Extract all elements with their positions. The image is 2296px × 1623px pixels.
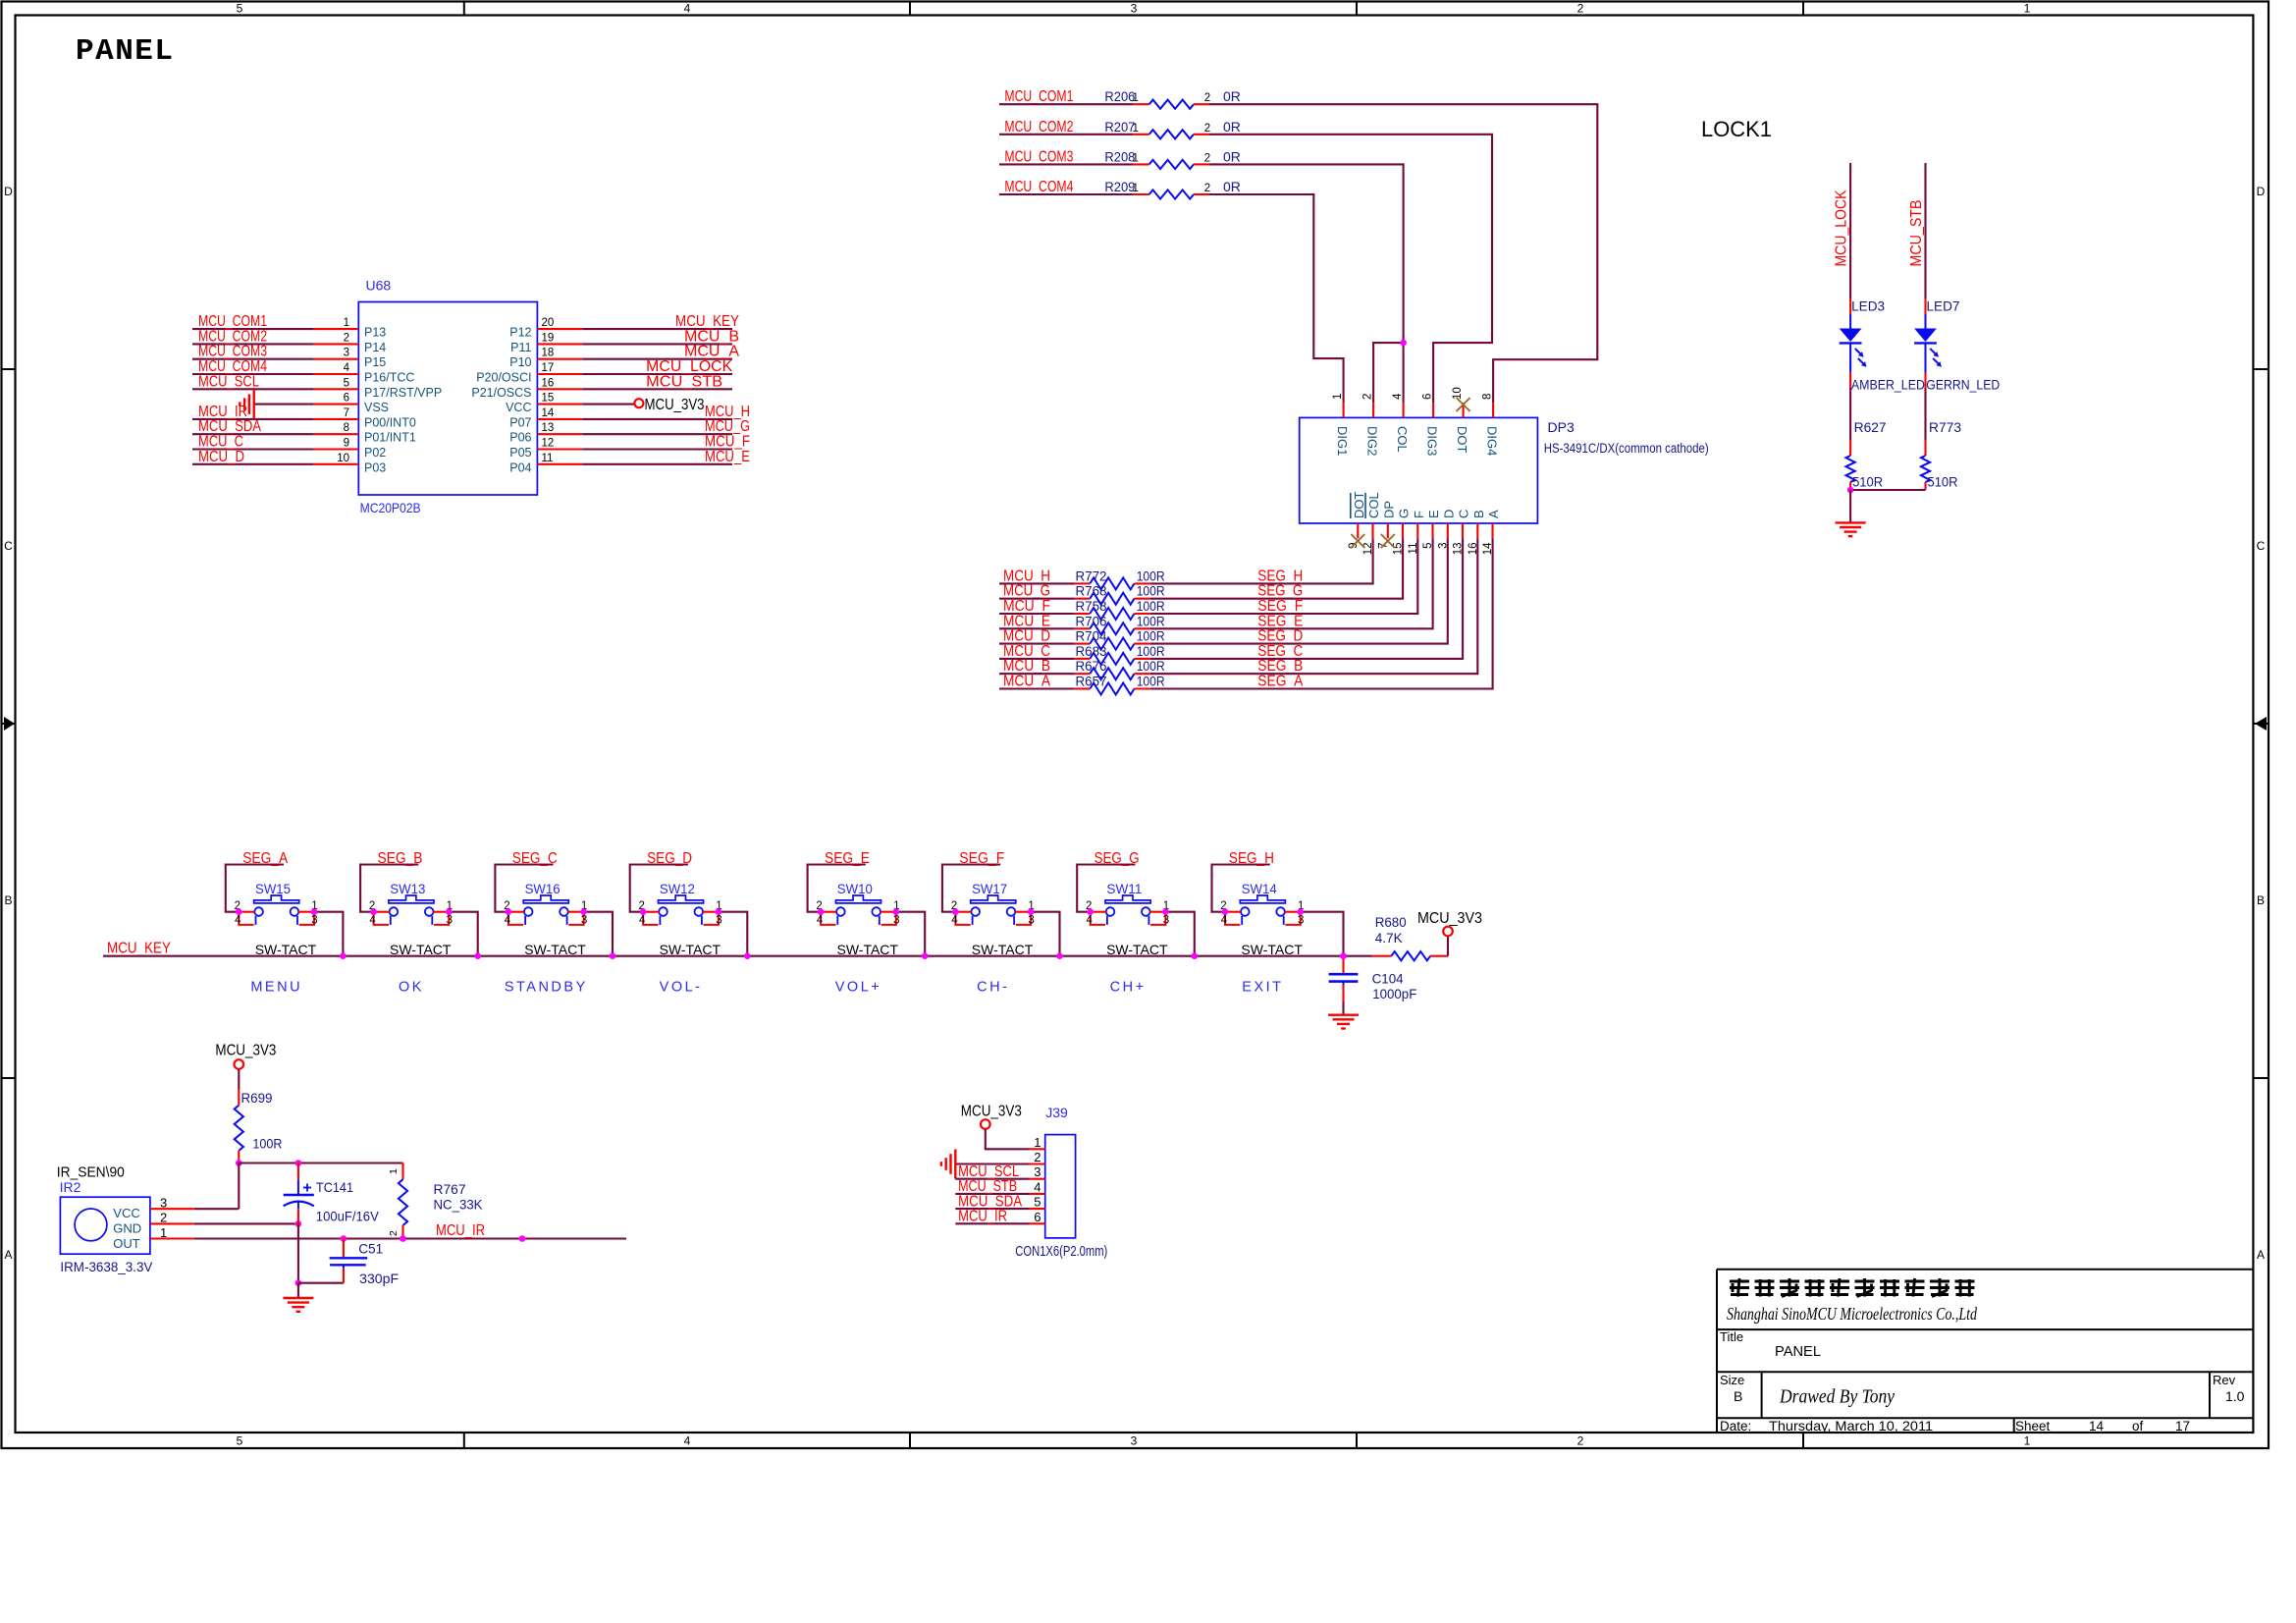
svg-text:SEG_B: SEG_B (378, 850, 423, 867)
svg-text:2: 2 (344, 332, 349, 344)
no-connect X on DP3 pin 10 (1457, 398, 1470, 411)
svg-text:B: B (2257, 893, 2265, 907)
resistor R706 pin2 stub (1135, 627, 1150, 629)
svg-text:2: 2 (1362, 394, 1374, 400)
wire SEG_G to DP3 pin (1150, 538, 1403, 598)
svg-text:EXIT: EXIT (1242, 980, 1283, 996)
svg-text:0R: 0R (1223, 179, 1241, 194)
resistor R683 pin2 stub (1135, 658, 1150, 660)
U68 pin 16 (P21/OSCS) stub (537, 388, 582, 390)
svg-text:SW-TACT: SW-TACT (390, 942, 452, 957)
junction SW10 pin2 (818, 908, 825, 915)
switch SW13 pin3 loop (434, 912, 449, 925)
svg-text:SW16: SW16 (525, 881, 561, 896)
svg-text:VCC: VCC (506, 401, 531, 414)
wire net MCU_LOCK at U68 right (582, 373, 732, 375)
title block frame (1717, 1269, 2253, 1271)
svg-text:MCU_IR: MCU_IR (436, 1222, 485, 1239)
LED LED7 emission arrows (1930, 349, 1938, 356)
svg-text:5: 5 (237, 1434, 243, 1448)
resistor R767 pin2 stub (401, 1225, 403, 1239)
wire bus to R680 (1344, 955, 1373, 957)
svg-text:SEG_E: SEG_E (825, 850, 870, 867)
wire C51 bottom to ground node (298, 1282, 344, 1284)
svg-text:1.0: 1.0 (2225, 1388, 2245, 1404)
svg-text:E: E (1426, 510, 1441, 518)
svg-text:MC20P02B: MC20P02B (360, 500, 421, 515)
svg-text:R699: R699 (241, 1090, 273, 1106)
resistor R683 pin1 stub (1075, 658, 1091, 660)
svg-text:4: 4 (639, 915, 646, 927)
svg-text:1: 1 (1133, 152, 1139, 164)
svg-text:R676: R676 (1076, 658, 1107, 674)
DP3 top pin 1 stub (1343, 403, 1345, 417)
wire net SEG_G stub at SW11 (1077, 865, 1135, 912)
wire SEG_C to DP3 pin (1150, 538, 1463, 659)
junction on bus below SW13 (474, 952, 481, 959)
svg-text:3: 3 (581, 915, 587, 927)
wire MCU_E to R706 (999, 627, 1075, 629)
junction on bus below SW10 (922, 952, 929, 959)
resistor R208 body (1149, 160, 1194, 169)
wire net MCU_COM4 at U68 left (192, 373, 313, 375)
power port MCU_3V3 at R699 (235, 1059, 244, 1069)
svg-text:P10: P10 (509, 355, 531, 369)
wire net MCU_IR at J39 (955, 1222, 1030, 1224)
junction SW11 pin2 (1087, 908, 1094, 915)
svg-text:14: 14 (542, 407, 555, 419)
switch SW15 pin3 loop (299, 912, 314, 925)
capacitor TC141 top stub (297, 1163, 299, 1180)
svg-text:P05: P05 (509, 446, 531, 460)
wire MCU_D to R704 (999, 643, 1075, 645)
svg-text:8: 8 (344, 422, 349, 434)
svg-text:1: 1 (2024, 1434, 2031, 1448)
wire MCU_COM4 to R209 (999, 193, 1134, 195)
svg-text:Thursday, March 10, 2011: Thursday, March 10, 2011 (1769, 1418, 1933, 1434)
wire TC141 bottom to ground node (297, 1223, 299, 1282)
svg-text:P02: P02 (364, 446, 386, 460)
junction SW16 pin1 (580, 908, 587, 915)
svg-text:1: 1 (1133, 92, 1139, 104)
svg-text:B: B (1471, 510, 1486, 518)
resistor R680 pin2 stub (1430, 955, 1448, 957)
svg-text:2: 2 (1577, 1434, 1584, 1448)
svg-text:DIG3: DIG3 (1425, 426, 1440, 456)
svg-text:SEG_A: SEG_A (1257, 674, 1304, 690)
resistor R704 pin2 stub (1135, 643, 1150, 645)
wire net MCU_B at U68 right (582, 343, 732, 345)
switch SW10 pin2 stub (824, 911, 836, 913)
svg-text:7: 7 (344, 407, 349, 419)
svg-text:P13: P13 (364, 326, 386, 340)
U68 pin 12 (P05) stub (537, 448, 582, 450)
switch SW17 body (971, 895, 1016, 903)
svg-text:SW-TACT: SW-TACT (1106, 942, 1168, 957)
capacitor C104 top stub (1342, 956, 1344, 973)
wire MCU_H to R772 (999, 582, 1075, 584)
svg-text:15: 15 (542, 393, 555, 405)
svg-text:10: 10 (337, 453, 349, 464)
svg-text:100R: 100R (1137, 628, 1165, 644)
wire net MCU_STB at U68 right (582, 388, 732, 390)
junction SW11 pin1 (1162, 908, 1169, 915)
switch SW12 pin2 stub (646, 911, 659, 913)
wire net MCU_COM1 at U68 left (192, 328, 313, 330)
junction SW12 pin1 (716, 908, 722, 915)
no-connect X on DP3 pin 9 (1351, 534, 1364, 548)
IR2 pin 2 stub (150, 1222, 194, 1224)
resistor R773 body (1921, 456, 1930, 482)
wire SEG_H to DP3 pin (1150, 538, 1373, 583)
junction R767 bottom (400, 1235, 406, 1242)
LED LED3 emission arrows (1855, 349, 1863, 356)
DP3 bottom pin 9 stub (1357, 523, 1359, 538)
svg-text:OUT: OUT (113, 1236, 140, 1251)
wire SW15 pin1 to MCU_KEY bus (314, 912, 343, 956)
svg-text:SEG_C: SEG_C (512, 850, 558, 867)
svg-text:11: 11 (542, 453, 554, 464)
svg-text:17: 17 (542, 362, 555, 374)
resistor R772 pin2 stub (1135, 582, 1150, 584)
switch SW14 pin3 loop (1285, 912, 1300, 925)
svg-text:C104: C104 (1372, 971, 1404, 987)
wire SEG_B to DP3 pin (1150, 538, 1478, 674)
wire MCU_COM4 to DP3 DIG1 pin 1 (1208, 194, 1343, 403)
svg-text:P11: P11 (510, 341, 531, 354)
svg-text:1: 1 (1133, 183, 1139, 194)
switch SW13 body (389, 895, 434, 903)
switch SW15 pin2 stub (241, 911, 254, 913)
resistor R773 pin2 stub (1924, 482, 1926, 490)
resistor R699 pin1 stub (238, 1089, 240, 1106)
svg-text:LED7: LED7 (1927, 298, 1960, 314)
svg-text:MCU_3V3: MCU_3V3 (961, 1104, 1022, 1120)
ground symbol (rotated) at U68 VSS (253, 390, 255, 419)
wire R680 to MCU_3V3 (1447, 936, 1449, 955)
capacitor TC141 plus sign (303, 1187, 311, 1189)
svg-text:Shanghai SinoMCU Microelectron: Shanghai SinoMCU Microelectronics Co.,Lt… (1727, 1304, 1977, 1324)
svg-text:SW11: SW11 (1106, 881, 1142, 896)
svg-text:VCC: VCC (113, 1206, 139, 1220)
resistor R767 pin1 stub (401, 1163, 403, 1180)
wire MCU_COM2 to DP3 DIG3 pin 6 (1208, 135, 1492, 403)
U68 pin 18 (P10) stub (537, 358, 582, 360)
U68 pin 13 (P06) stub (537, 433, 582, 435)
svg-text:1: 1 (1133, 123, 1139, 135)
capacitor C51 top stub (343, 1239, 345, 1258)
resistor R772 pin1 stub (1075, 582, 1091, 584)
svg-text:14: 14 (2089, 1419, 2105, 1434)
svg-text:SW-TACT: SW-TACT (837, 942, 899, 957)
svg-text:2: 2 (1577, 2, 1584, 16)
svg-text:6: 6 (1422, 394, 1434, 400)
ground symbol at IR section (283, 1297, 313, 1299)
switch SW14 pin4 loop (1225, 912, 1240, 925)
svg-text:CH-: CH- (977, 980, 1009, 996)
wire SEG_A to DP3 pin (1150, 538, 1493, 688)
U68 pin 15 (VCC) stub (537, 404, 582, 406)
svg-text:P21/OSCS: P21/OSCS (471, 386, 531, 400)
wire net MCU_SDA at U68 left (192, 433, 313, 435)
svg-text:SEG_F: SEG_F (959, 850, 1004, 867)
svg-text:A: A (4, 1248, 12, 1262)
svg-text:2: 2 (1204, 183, 1210, 194)
resistor R657 pin2 stub (1135, 687, 1150, 689)
svg-text:Drawed By Tony: Drawed By Tony (1779, 1386, 1895, 1408)
wire SEG_E to DP3 pin (1150, 538, 1433, 628)
wire net MCU_COM2 at U68 left (192, 343, 313, 345)
svg-text:3: 3 (344, 348, 349, 359)
switch SW12 body (659, 895, 704, 903)
svg-text:of: of (2132, 1419, 2144, 1434)
svg-text:1: 1 (2024, 2, 2031, 16)
wire MCU_COM3 to R208 (999, 163, 1134, 165)
resistor R657 pin1 stub (1075, 687, 1091, 689)
overline on DP3 pin name COL (1364, 493, 1366, 518)
svg-text:2: 2 (1204, 123, 1210, 135)
svg-text:510R: 510R (1928, 474, 1958, 490)
svg-text:Size: Size (1720, 1373, 1744, 1387)
svg-text:P15: P15 (364, 355, 386, 369)
switch SW16 pin3 loop (568, 912, 583, 925)
U68 pin 9 (P02) stub (313, 448, 358, 450)
svg-text:19: 19 (542, 332, 555, 344)
svg-text:1: 1 (160, 1225, 167, 1240)
svg-text:4: 4 (369, 915, 376, 927)
junction bus/R680/C104 (1340, 952, 1347, 959)
svg-text:SEG_G: SEG_G (1095, 850, 1140, 867)
svg-text:MCU_3V3: MCU_3V3 (1417, 910, 1482, 927)
svg-text:DIG4: DIG4 (1485, 426, 1500, 456)
svg-text:17: 17 (2175, 1419, 2190, 1434)
wire SW10 pin1 to MCU_KEY bus (896, 912, 925, 956)
svg-text:C: C (4, 539, 13, 553)
svg-text:B: B (1734, 1388, 1742, 1404)
junction ground node (295, 1279, 302, 1286)
DP3 bottom pin 14 stub (1491, 523, 1493, 538)
junction on bus below SW12 (744, 952, 751, 959)
resistor R208 pin2 stub (1194, 163, 1208, 165)
svg-text:D: D (4, 185, 13, 198)
svg-text:SW-TACT: SW-TACT (660, 942, 721, 957)
svg-text:2: 2 (1204, 92, 1210, 104)
wire SW11 pin1 to MCU_KEY bus (1165, 912, 1194, 956)
svg-text:SW-TACT: SW-TACT (255, 942, 317, 957)
junction on bus below SW15 (340, 952, 347, 959)
wire branch COL junction to DIG2 pin 2 (1373, 343, 1404, 403)
U68 pin 4 (P16/TCC) stub (313, 373, 358, 375)
LED LED7 body (1925, 314, 1927, 329)
svg-text:6: 6 (1034, 1210, 1041, 1224)
svg-text:3: 3 (1163, 915, 1169, 927)
svg-text:510R: 510R (1852, 474, 1883, 490)
switch SW12 pin1 stub (703, 911, 716, 913)
svg-text:0R: 0R (1223, 119, 1241, 135)
U68 pin 7 (P00/INT0) stub (313, 418, 358, 420)
wire net MCU_SCL at U68 left (192, 388, 313, 390)
J39 pin 3 stub (1030, 1178, 1045, 1180)
switch SW15 body (254, 895, 299, 903)
wire IR2 OUT / MCU_IR (194, 1237, 626, 1239)
svg-text:IRM-3638_3.3V: IRM-3638_3.3V (60, 1259, 153, 1274)
DP3 top pin 2 stub (1372, 403, 1374, 417)
svg-text:SW17: SW17 (972, 881, 1007, 896)
svg-text:4: 4 (684, 2, 691, 16)
U68 pin 14 (P07) stub (537, 418, 582, 420)
junction at COL net (1400, 340, 1407, 347)
svg-text:J39: J39 (1045, 1105, 1068, 1120)
wire net MCU_IR at U68 left (192, 418, 313, 420)
resistor R208 pin1 stub (1134, 163, 1149, 165)
svg-text:DP3: DP3 (1548, 419, 1575, 435)
resistor R768 pin1 stub (1075, 598, 1091, 600)
wire SW17 pin1 to MCU_KEY bus (1031, 912, 1059, 956)
LED LED3 body (1849, 314, 1851, 329)
svg-text:5: 5 (344, 377, 349, 389)
svg-text:R706: R706 (1076, 613, 1107, 628)
svg-text:1: 1 (344, 317, 349, 329)
overline on DP3 pin name DOT (1350, 493, 1352, 518)
svg-text:R657: R657 (1076, 674, 1107, 689)
svg-text:4: 4 (1086, 915, 1093, 927)
svg-text:P16/TCC: P16/TCC (364, 371, 414, 385)
DP3 bottom pin 3 stub (1447, 523, 1449, 538)
resistor R206 body (1149, 100, 1194, 109)
svg-text:IR_SEN\90: IR_SEN\90 (57, 1164, 125, 1181)
svg-text:100R: 100R (1137, 598, 1165, 614)
svg-text:COL: COL (1395, 426, 1410, 453)
svg-text:VOL+: VOL+ (835, 980, 881, 996)
junction TC141 bottom / GND (295, 1220, 302, 1227)
wire SEG_F to DP3 pin (1150, 538, 1418, 614)
centerline arrow right border (2255, 717, 2267, 730)
svg-text:MCU_SCL: MCU_SCL (198, 373, 259, 390)
svg-text:R627: R627 (1854, 419, 1887, 435)
svg-text:P20/OSCI: P20/OSCI (476, 371, 531, 385)
wire MCU_B to R676 (999, 673, 1075, 675)
svg-text:3: 3 (1298, 915, 1304, 927)
svg-text:DP: DP (1381, 501, 1396, 518)
U68 pin 10 (P03) stub (313, 463, 358, 465)
svg-text:MCU_3V3: MCU_3V3 (645, 397, 705, 413)
svg-text:16: 16 (542, 377, 555, 389)
switch SW15 pin4 loop (239, 912, 253, 925)
switch SW13 pin1 stub (433, 911, 446, 913)
svg-text:4: 4 (505, 915, 511, 927)
power port MCU_3V3 at R680 (1443, 927, 1453, 937)
switch SW12 pin4 loop (643, 912, 658, 925)
switch SW10 pin4 loop (821, 912, 835, 925)
junction SW17 pin2 (952, 908, 959, 915)
resistor R768 body (1090, 593, 1134, 605)
wire ground node down (297, 1283, 299, 1298)
junction on bus below SW17 (1056, 952, 1063, 959)
svg-text:3: 3 (447, 915, 453, 927)
switch SW10 pin3 loop (881, 912, 896, 925)
switch SW11 body (1105, 895, 1150, 903)
switch SW12 pin3 loop (704, 912, 719, 925)
svg-text:R704: R704 (1076, 628, 1107, 644)
svg-text:330pF: 330pF (359, 1271, 399, 1286)
power port MCU_3V3 at U68 VCC (634, 399, 643, 407)
svg-text:MCU_A: MCU_A (1003, 674, 1051, 690)
svg-text:AMBER_LED: AMBER_LED (1851, 376, 1925, 392)
DP3 bottom pin 13 stub (1462, 523, 1464, 538)
wire LED3 to R627 (1849, 388, 1851, 441)
svg-text:MCU_IR: MCU_IR (958, 1209, 1007, 1225)
J39 pin 4 stub (1030, 1193, 1045, 1195)
wire SEG_D to DP3 pin (1150, 538, 1448, 643)
wire net MCU_A at U68 right (582, 358, 732, 360)
junction SW16 pin2 (506, 908, 512, 915)
junction R699/VCC (236, 1160, 242, 1166)
svg-text:MCU_COM2: MCU_COM2 (1004, 119, 1073, 135)
svg-text:R772: R772 (1076, 568, 1107, 583)
svg-text:R773: R773 (1929, 419, 1961, 435)
resistor R207 body (1149, 130, 1194, 138)
svg-text:VOL-: VOL- (660, 980, 703, 996)
junction SW13 pin1 (446, 908, 453, 915)
svg-text:MCU_3V3: MCU_3V3 (215, 1042, 276, 1058)
wire net SEG_E stub at SW10 (808, 865, 866, 912)
resistor R657 body (1090, 683, 1134, 695)
zone row ticks left/right (2, 368, 16, 370)
svg-text:C51: C51 (358, 1241, 383, 1257)
svg-text:R207: R207 (1104, 119, 1135, 135)
svg-text:4: 4 (817, 915, 824, 927)
svg-text:Title: Title (1720, 1329, 1743, 1344)
wire MCU_A to R657 (999, 687, 1075, 689)
wire net SEG_H stub at SW14 (1212, 865, 1270, 912)
svg-text:MCU_COM3: MCU_COM3 (1004, 148, 1073, 165)
wire MCU_COM1 to DP3 DIG4 pin 8 (1208, 104, 1597, 403)
svg-text:1: 1 (1332, 394, 1344, 400)
capacitor TC141 body (284, 1194, 314, 1196)
resistor R706 body (1090, 622, 1134, 634)
resistor R627 pin1 stub (1849, 441, 1851, 456)
resistor R758 pin1 stub (1075, 613, 1091, 615)
svg-text:2: 2 (1204, 152, 1210, 164)
svg-text:0R: 0R (1223, 88, 1241, 104)
svg-text:CON1X6(P2.0mm): CON1X6(P2.0mm) (1015, 1244, 1107, 1260)
U68 pin 8 (P01/INT1) stub (313, 433, 358, 435)
svg-text:3: 3 (1131, 2, 1138, 16)
svg-text:10: 10 (1452, 387, 1464, 400)
switch SW16 pin2 stub (511, 911, 524, 913)
svg-text:4: 4 (1221, 915, 1228, 927)
resistor R704 body (1090, 638, 1134, 650)
svg-text:1000pF: 1000pF (1372, 986, 1416, 1001)
junction at R627 bottom (1847, 487, 1854, 494)
switch SW16 pin1 stub (568, 911, 581, 913)
U68 pin 11 (P04) stub (537, 463, 582, 465)
resistor R758 body (1090, 608, 1134, 620)
svg-text:3: 3 (160, 1196, 167, 1211)
DP3 bottom pin 7 stub (1387, 523, 1389, 538)
svg-text:P00/INT0: P00/INT0 (364, 415, 416, 429)
junction on bus below SW16 (610, 952, 616, 959)
wire net MCU_COM3 at U68 left (192, 358, 313, 360)
U68 pin 1 (P13) stub (313, 328, 358, 330)
svg-text:SW15: SW15 (255, 881, 291, 896)
svg-text:4: 4 (344, 362, 350, 374)
U68 pin 2 (P14) stub (313, 343, 358, 345)
svg-text:P12: P12 (509, 326, 531, 340)
LED LED3 anode pin stub (1849, 299, 1851, 314)
svg-text:MCU_STB: MCU_STB (646, 373, 722, 390)
svg-text:4: 4 (1392, 393, 1404, 400)
